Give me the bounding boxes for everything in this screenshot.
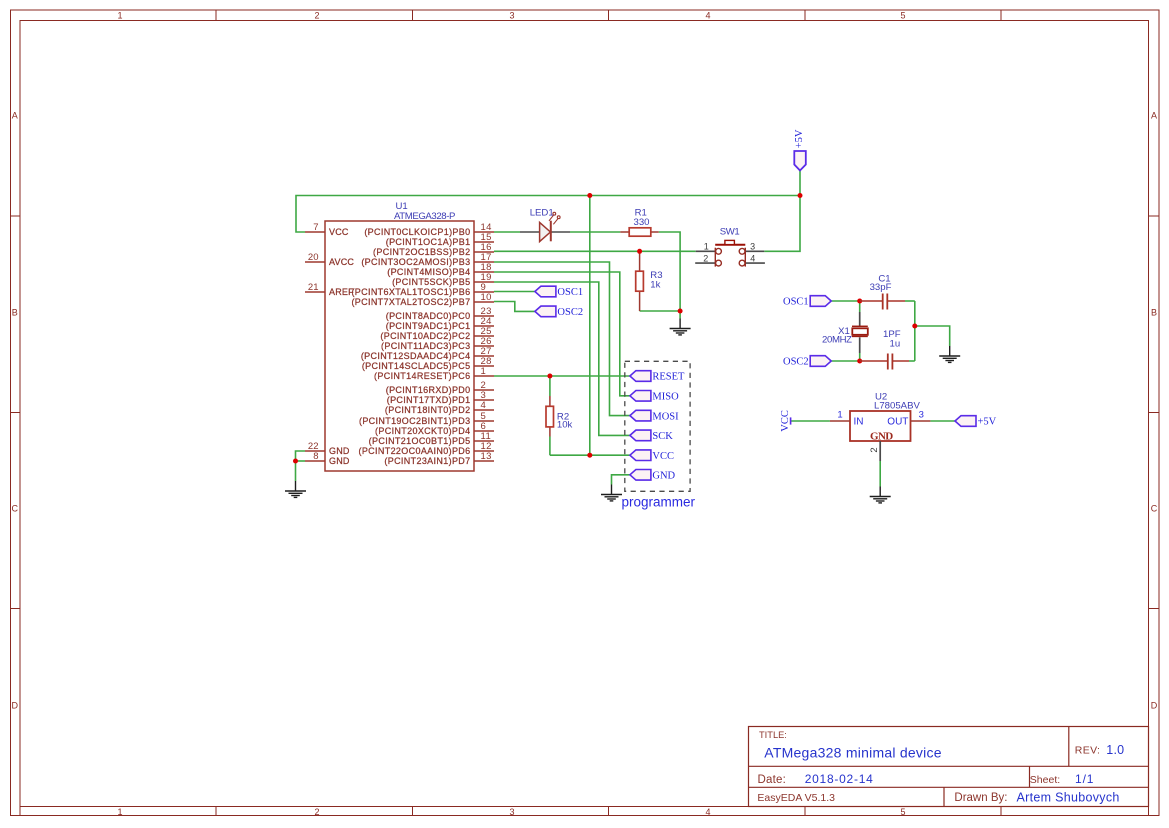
resistor R1 (620, 228, 658, 236)
svg-text:(PCINT2OC1BSS)PB2: (PCINT2OC1BSS)PB2 (373, 247, 470, 257)
wire VCC to U2 IN (791, 420, 830, 422)
svg-text:10k: 10k (557, 420, 573, 431)
svg-text:1: 1 (117, 807, 122, 817)
wire C2 to right rail (909, 360, 915, 362)
junction RESET / R2 (547, 374, 552, 379)
svg-text:(PCINT11ADC3)PC3: (PCINT11ADC3)PC3 (381, 341, 470, 351)
svg-text:(PCINT12SDAADC4)PC4: (PCINT12SDAADC4)PC4 (361, 351, 471, 361)
wire OSC1 node to X1 (859, 301, 861, 312)
svg-text:(PCINT4MISO)PB4: (PCINT4MISO)PB4 (387, 267, 470, 277)
svg-text:OSC2: OSC2 (783, 357, 809, 368)
junction top rail / programmer VCC drop (587, 193, 592, 198)
junction right rail / ground branch (912, 324, 917, 329)
svg-text:7: 7 (313, 222, 318, 233)
svg-text:D: D (1151, 701, 1158, 711)
svg-text:AREF: AREF (329, 287, 354, 297)
net flag OSC2 left (535, 306, 583, 318)
svg-text:REV:: REV: (1075, 745, 1101, 757)
svg-text:OSC1: OSC1 (557, 287, 583, 298)
net flag +5V top (794, 129, 806, 170)
svg-text:3: 3 (750, 241, 755, 251)
net flag RESET (630, 371, 685, 383)
svg-text:(PCINT22OC0AAIN0)PD6: (PCINT22OC0AAIN0)PD6 (358, 446, 470, 456)
wire PB2 to SW1 (494, 250, 696, 252)
junction PB2 / R3 (637, 249, 642, 254)
capacitor C1 (860, 294, 905, 310)
svg-text:(PCINT9ADC1)PC1: (PCINT9ADC1)PC1 (386, 321, 471, 331)
net flag VCC programmer (630, 450, 674, 462)
ground R3 (670, 319, 691, 335)
diode LED1 (520, 212, 570, 241)
svg-text:VCC: VCC (780, 410, 791, 432)
net flag MISO (630, 391, 679, 403)
wire X1 to OSC2 node (859, 353, 861, 361)
svg-text:1: 1 (117, 11, 122, 21)
net flag MOSI (630, 410, 679, 422)
wire GND flag to ground (612, 475, 630, 485)
frame row letters left (12, 111, 19, 711)
wire PB0 to LED1 (494, 231, 520, 233)
wire VCC vertical to programmer (589, 196, 591, 456)
svg-text:2018-02-14: 2018-02-14 (805, 772, 874, 786)
wire R1 to ground node (659, 232, 680, 311)
svg-text:Date:: Date: (758, 774, 787, 786)
svg-text:(PCINT10ADC2)PC2: (PCINT10ADC2)PC2 (380, 331, 470, 341)
svg-text:A: A (12, 111, 18, 121)
junction OSC2 / X1 / C2 (857, 359, 862, 364)
svg-text:+5V: +5V (978, 417, 997, 428)
junction top rail / +5V (798, 193, 803, 198)
svg-text:LED1: LED1 (530, 207, 554, 218)
svg-text:EasyEDA V5.1.3: EasyEDA V5.1.3 (757, 792, 835, 804)
wire LED1 to R1 (570, 231, 620, 233)
svg-text:(PCINT1OC1A)PB1: (PCINT1OC1A)PB1 (386, 237, 471, 247)
wire PB6 to OSC1 flag (494, 291, 535, 293)
junction VCC row / vertical (587, 453, 592, 458)
svg-text:D: D (12, 701, 19, 711)
svg-text:1: 1 (837, 409, 842, 420)
wire U1 GND to ground (295, 461, 297, 481)
net flag OSC1 left (535, 286, 583, 298)
U1 left pins (305, 232, 325, 461)
svg-text:(PCINT16RXD)PD0: (PCINT16RXD)PD0 (386, 385, 471, 395)
svg-text:10: 10 (481, 292, 492, 303)
svg-text:1/1: 1/1 (1075, 772, 1094, 786)
svg-text:ATMEGA328-P: ATMEGA328-P (394, 211, 455, 222)
svg-text:SCK: SCK (652, 431, 673, 442)
svg-text:B: B (1151, 308, 1157, 318)
switch SW1 (695, 240, 765, 266)
svg-text:(PCINT21OC0BT1)PD5: (PCINT21OC0BT1)PD5 (369, 436, 471, 446)
svg-text:(PCINT14RESET)PC6: (PCINT14RESET)PC6 (374, 371, 470, 381)
wire RESET to R2 top (549, 376, 551, 396)
svg-text:1: 1 (481, 366, 487, 377)
wire VCC row to programmer (550, 454, 630, 456)
svg-text:5: 5 (900, 807, 905, 817)
wire +5V stem (799, 171, 801, 196)
U1 right pin names (351, 227, 470, 466)
svg-text:1.0: 1.0 (1106, 743, 1124, 757)
svg-text:(PCINT23AIN1)PD7: (PCINT23AIN1)PD7 (384, 456, 470, 466)
programmer dashed box (625, 361, 690, 491)
wire U1 GND pin8 (296, 460, 306, 462)
U2 pin 3 OUT (911, 420, 931, 422)
svg-text:20MHZ: 20MHZ (822, 335, 852, 346)
svg-text:2: 2 (703, 253, 708, 263)
svg-text:L7805ABV: L7805ABV (874, 401, 920, 412)
svg-text:C: C (12, 504, 19, 514)
svg-text:1: 1 (704, 241, 709, 251)
svg-text:4: 4 (481, 400, 487, 411)
net flag OSC2 right (783, 356, 831, 368)
wire PB4 to MISO (494, 272, 630, 396)
net flag GND programmer (630, 470, 676, 482)
svg-text:GND: GND (329, 446, 350, 456)
net flag SCK (630, 430, 673, 442)
svg-text:A: A (1151, 111, 1157, 121)
wire U2 OUT to +5V flag (930, 420, 955, 422)
svg-text:SW1: SW1 (720, 227, 740, 238)
svg-text:Sheet:: Sheet: (1030, 774, 1060, 786)
U1 left pin names (329, 227, 354, 466)
svg-text:(PCINT6XTAL1TOSC1)PB6: (PCINT6XTAL1TOSC1)PB6 (351, 287, 470, 297)
svg-text:C: C (1151, 504, 1158, 514)
junction U1 GND pins (293, 459, 298, 464)
wire R3 bottom to ground node (640, 310, 681, 312)
svg-text:1k: 1k (650, 279, 660, 290)
svg-text:8: 8 (313, 451, 318, 462)
svg-text:(PCINT19OC2BINT1)PD3: (PCINT19OC2BINT1)PD3 (359, 416, 471, 426)
svg-text:2: 2 (314, 11, 319, 21)
svg-text:OSC2: OSC2 (557, 307, 583, 318)
svg-text:VCC: VCC (329, 227, 349, 237)
regulator U2 L7805ABV body (850, 411, 911, 441)
capacitor C2 (1PF 1u) (860, 354, 909, 370)
svg-text:ATMega328 minimal device: ATMega328 minimal device (764, 745, 941, 761)
svg-text:B: B (12, 308, 18, 318)
wire VCC top rail (296, 196, 800, 233)
svg-text:(PCINT17TXD)PD1: (PCINT17TXD)PD1 (387, 395, 471, 405)
svg-text:4: 4 (705, 11, 710, 21)
svg-text:RESET: RESET (652, 372, 685, 383)
frame column numbers bottom (117, 807, 905, 817)
junction OSC1 / X1 / C1 (857, 299, 862, 304)
frame row letters right (1151, 111, 1158, 711)
SW1 pin numbers (703, 241, 755, 263)
wire OSC1 flag to node (831, 300, 860, 302)
svg-text:(PCINT8ADC0)PC0: (PCINT8ADC0)PC0 (386, 311, 471, 321)
svg-text:4: 4 (705, 807, 710, 817)
svg-text:3: 3 (919, 409, 924, 420)
svg-text:MOSI: MOSI (652, 411, 679, 422)
wire right rail vertical (914, 301, 916, 361)
svg-text:21: 21 (308, 282, 319, 293)
svg-text:(PCINT5SCK)PB5: (PCINT5SCK)PB5 (392, 277, 470, 287)
U1 right pin numbers (481, 222, 492, 462)
U1 left pin numbers (308, 222, 319, 462)
wire U1 GND pin22 (296, 451, 306, 461)
svg-text:IN: IN (854, 417, 864, 428)
svg-text:3: 3 (509, 807, 514, 817)
svg-text:(PCINT18INT0)PD2: (PCINT18INT0)PD2 (385, 405, 471, 415)
wire PC6 RESET to programmer (494, 375, 630, 377)
svg-text:Drawn By:: Drawn By: (954, 792, 1007, 804)
wire ground node stub (679, 311, 681, 319)
wire U2 GND to ground (879, 461, 881, 487)
ground U2 (870, 487, 891, 503)
wire PB5 to SCK (494, 282, 630, 435)
wire +5V to SW1 pin3 (764, 196, 800, 252)
resistor R2 (546, 396, 554, 437)
svg-text:Artem Shubovych: Artem Shubovych (1017, 790, 1120, 804)
wire PB3 to MOSI (494, 262, 630, 416)
svg-text:2: 2 (869, 447, 880, 452)
U1 right pins (474, 232, 494, 461)
junction R1-R3 ground node (678, 309, 683, 314)
svg-text:VCC: VCC (652, 451, 674, 462)
frame column numbers top (117, 11, 905, 21)
U2 pin 1 IN (830, 420, 850, 422)
svg-text:3: 3 (509, 11, 514, 21)
resistor R3 (636, 251, 644, 311)
svg-text:TITLE:: TITLE: (759, 730, 787, 740)
svg-text:330: 330 (634, 217, 650, 228)
ground programmer GND (601, 485, 622, 501)
wire C1 to right rail (905, 300, 915, 302)
svg-text:(PCINT14SCLADC5)PC5: (PCINT14SCLADC5)PC5 (362, 361, 471, 371)
svg-text:(PCINT7XTAL2TOSC2)PB7: (PCINT7XTAL2TOSC2)PB7 (351, 297, 470, 307)
svg-text:33pF: 33pF (870, 282, 892, 293)
op-amp U1 ATMEGA328-P body (325, 221, 474, 471)
svg-text:5: 5 (900, 11, 905, 21)
svg-text:MISO: MISO (652, 392, 679, 403)
wire PB7 to OSC2 flag (494, 302, 535, 312)
wire R2 bottom to VCC row (549, 437, 551, 456)
title block (749, 727, 1149, 807)
wire OSC2 flag to node (831, 360, 860, 362)
ground crystal branch (939, 346, 960, 362)
svg-text:AVCC: AVCC (329, 257, 354, 267)
svg-text:13: 13 (481, 451, 492, 462)
svg-text:2: 2 (314, 807, 319, 817)
svg-text:GND: GND (870, 430, 893, 442)
svg-text:4: 4 (750, 253, 755, 263)
svg-text:(PCINT0CLKOICP1)PB0: (PCINT0CLKOICP1)PB0 (364, 227, 470, 237)
svg-text:+5V: +5V (794, 129, 805, 148)
svg-text:OUT: OUT (887, 417, 908, 428)
wire right rail to ground (915, 326, 950, 346)
svg-text:(PCINT3OC2AMOSI)PB3: (PCINT3OC2AMOSI)PB3 (361, 257, 470, 267)
svg-text:GND: GND (652, 471, 675, 482)
crystal X1 (852, 312, 868, 353)
svg-text:OSC1: OSC1 (783, 297, 809, 308)
net flag OSC1 right (783, 296, 831, 308)
svg-text:programmer: programmer (622, 495, 696, 510)
svg-text:GND: GND (329, 456, 350, 466)
svg-text:1u: 1u (890, 339, 901, 350)
ground U1 GND (285, 481, 306, 497)
U2 pin 2 GND lead (879, 441, 881, 461)
svg-text:20: 20 (308, 252, 319, 263)
net flag VCC at U2 input (780, 410, 791, 432)
svg-text:(PCINT20XCKT0)PD4: (PCINT20XCKT0)PD4 (375, 426, 470, 436)
net flag +5V at U2 output (955, 416, 997, 428)
